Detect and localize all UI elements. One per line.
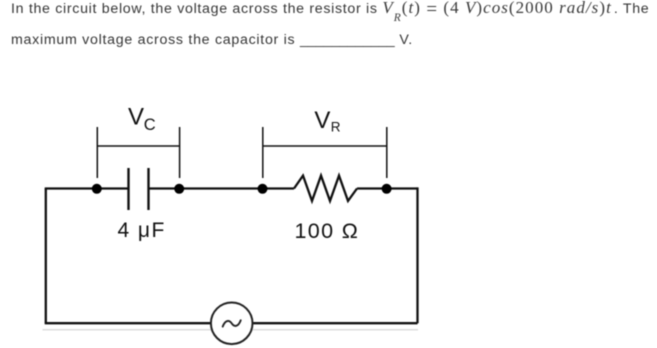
capacitor C1 left plate [127, 168, 129, 210]
capacitor C1 right plate [147, 168, 149, 210]
AC source V1 circle [211, 303, 253, 345]
wire top: resistor to right corner [357, 187, 418, 189]
Vc bracket right tick [179, 127, 181, 178]
Vc bracket left tick [96, 127, 98, 178]
svg-text:C: C [144, 116, 156, 134]
wire bottom left [45, 322, 211, 324]
node dot resistor right [382, 184, 392, 194]
Vr bracket horizontal [263, 145, 387, 147]
svg-text:V: V [314, 107, 330, 134]
Vr bracket left tick [262, 127, 264, 178]
svg-text:4 μF: 4 μF [118, 219, 166, 242]
Vc bracket horizontal [97, 145, 179, 147]
svg-text:R: R [331, 119, 341, 134]
question text line 1 [11, 1, 649, 17]
wire right vertical [416, 187, 418, 323]
svg-text:V: V [128, 103, 144, 130]
svg-text:100 Ω: 100 Ω [295, 219, 360, 243]
node dot capacitor right [174, 184, 184, 194]
Vr bracket right tick [386, 127, 388, 178]
wire top: capacitor to resistor [149, 187, 295, 189]
question text line 2 [11, 33, 413, 47]
node dot resistor left [258, 184, 268, 194]
AC source sine symbol [223, 320, 241, 326]
wire top: left corner to capacitor [45, 187, 129, 189]
resistor R1 zigzag [294, 176, 357, 201]
wire left vertical [45, 189, 47, 324]
wire bottom right [252, 322, 417, 324]
node dot capacitor left [92, 184, 102, 194]
faint image border line [43, 329, 419, 331]
